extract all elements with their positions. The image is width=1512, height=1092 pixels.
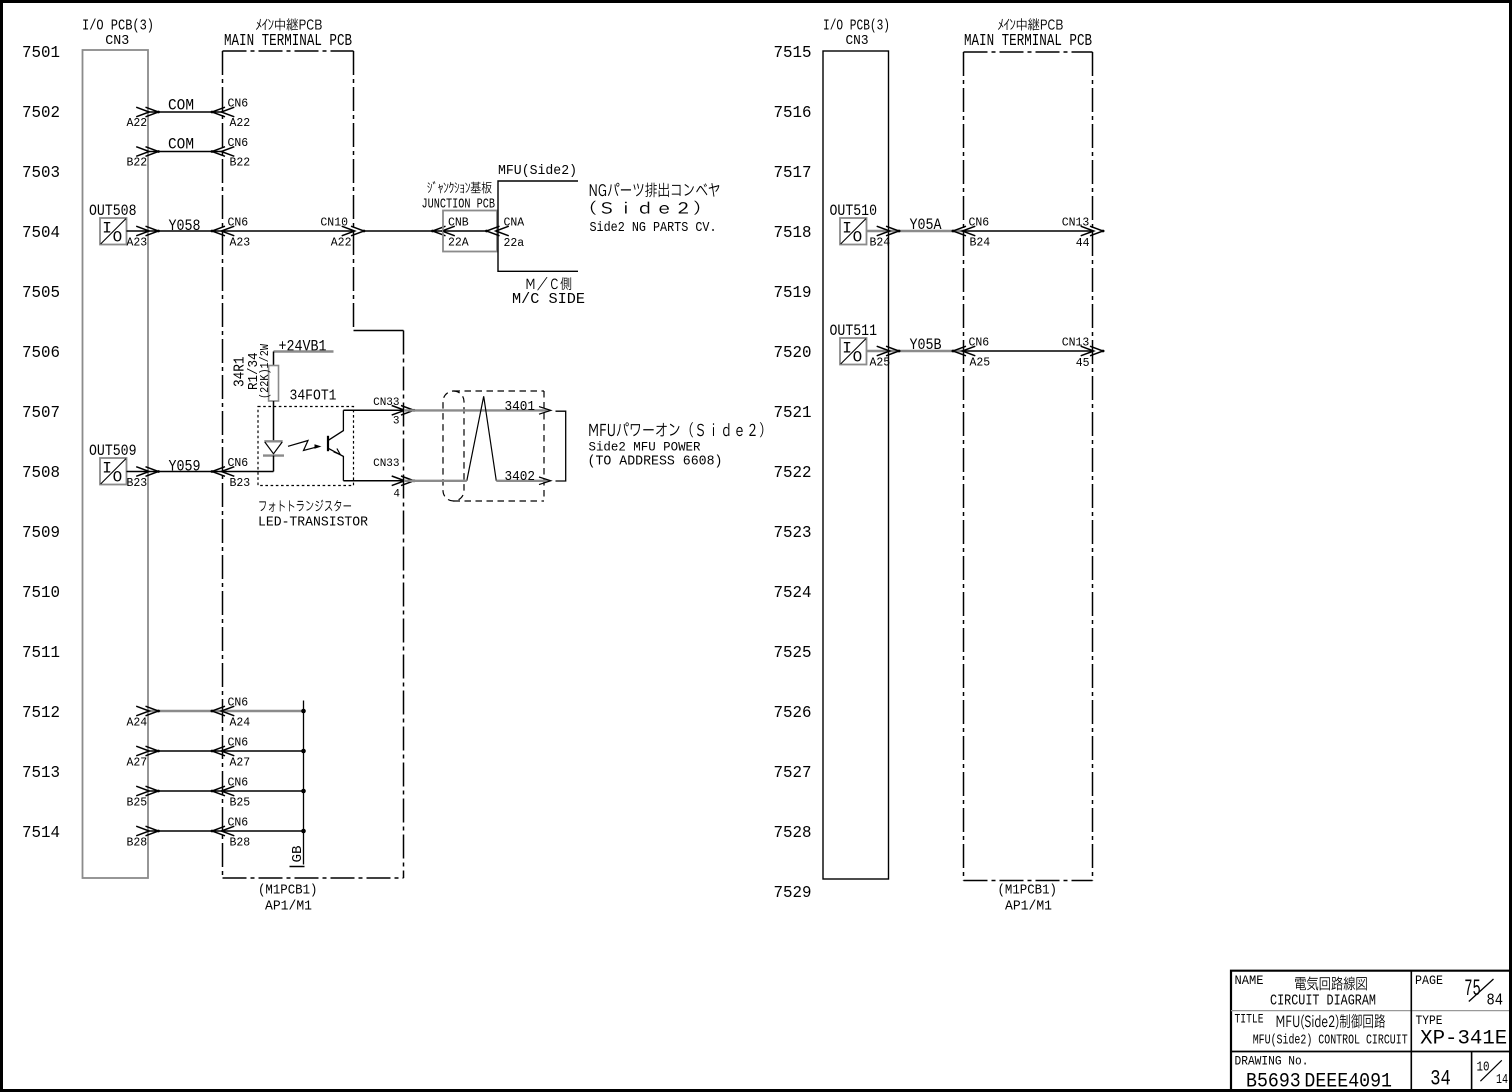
svg-text:7501: 7501 bbox=[22, 44, 60, 63]
svg-text:TYPE: TYPE bbox=[1416, 1013, 1443, 1028]
wire resistor to LED bbox=[273, 401, 275, 441]
wire COM A22 bbox=[148, 111, 223, 113]
svg-text:B28: B28 bbox=[230, 837, 251, 850]
arrow CN6 B25 into MAIN TERMINAL bbox=[221, 786, 234, 796]
arrow A23 out of I/O PCB bbox=[136, 226, 149, 236]
svg-text:Y058: Y058 bbox=[169, 217, 201, 235]
arrow CN6 B24 into MAIN TERMINAL bbox=[962, 226, 975, 236]
svg-text:GB: GB bbox=[291, 846, 306, 863]
svg-text:CIRCUIT DIAGRAM: CIRCUIT DIAGRAM bbox=[1270, 993, 1376, 1010]
svg-text:B25: B25 bbox=[126, 797, 147, 810]
svg-text:Y05A: Y05A bbox=[910, 216, 943, 234]
wire collector to CN33 pin 3 bbox=[343, 409, 403, 411]
svg-text:NAME: NAME bbox=[1235, 973, 1264, 988]
svg-text:CN6: CN6 bbox=[228, 98, 249, 111]
wire 3402 bbox=[404, 480, 467, 482]
svg-text:7503: 7503 bbox=[22, 164, 60, 183]
phototransistor base bar bbox=[327, 436, 329, 451]
svg-text:CN6: CN6 bbox=[228, 737, 249, 750]
svg-text:O: O bbox=[113, 229, 123, 247]
svg-text:A25: A25 bbox=[970, 357, 991, 370]
svg-text:B28: B28 bbox=[126, 837, 147, 850]
svg-text:(22K)1/2W: (22K)1/2W bbox=[258, 343, 272, 399]
arrow CN33 pin 4 bbox=[392, 476, 405, 486]
svg-text:7524: 7524 bbox=[774, 584, 812, 603]
light emission arrow bbox=[288, 441, 318, 451]
circuit diagram kanji title bbox=[1295, 976, 1367, 990]
resistor 34R1 bbox=[269, 366, 279, 402]
wire emitter to CN33 pin 4 bbox=[343, 480, 403, 482]
svg-text:(M1PCB1): (M1PCB1) bbox=[258, 883, 318, 899]
arrow A27 out of I/O PCB bbox=[136, 746, 149, 756]
svg-text:(M1PCB1): (M1PCB1) bbox=[998, 883, 1058, 899]
optocoupler dotted box bbox=[258, 407, 354, 486]
svg-text:Y05B: Y05B bbox=[910, 336, 942, 354]
svg-text:PAGE: PAGE bbox=[1415, 973, 1443, 988]
wire inside junction PCB bbox=[443, 230, 488, 232]
svg-text:XP-341E: XP-341E bbox=[1420, 1028, 1507, 1051]
wire LED cathode down bbox=[273, 456, 275, 472]
twisted pair symbol bbox=[467, 396, 497, 481]
wire Y058 bbox=[127, 230, 223, 232]
svg-text:AP1/M1: AP1/M1 bbox=[265, 899, 312, 915]
svg-text:7516: 7516 bbox=[774, 104, 812, 123]
svg-text:JUNCTION PCB: JUNCTION PCB bbox=[422, 197, 496, 213]
title block page-fraction divider bbox=[1471, 1052, 1473, 1090]
svg-text:CN6: CN6 bbox=[228, 817, 249, 830]
wire Y05A grey bbox=[867, 230, 964, 232]
svg-text:+24VB1: +24VB1 bbox=[279, 338, 327, 356]
left MAIN TERMINAL PCB kanji header bbox=[256, 18, 322, 30]
svg-text:O: O bbox=[113, 469, 123, 487]
svg-text:CN6: CN6 bbox=[228, 697, 249, 710]
arrow CN6 A24 into MAIN TERMINAL bbox=[221, 706, 234, 716]
arrow CN6 B23 into MAIN TERMINAL bbox=[221, 467, 234, 477]
svg-text:A22: A22 bbox=[331, 237, 352, 250]
svg-text:A23: A23 bbox=[126, 237, 147, 250]
svg-text:7528: 7528 bbox=[774, 824, 812, 843]
svg-text:7529: 7529 bbox=[774, 884, 812, 903]
svg-text:MFU(Side2) CONTROL CIRCUIT: MFU(Side2) CONTROL CIRCUIT bbox=[1253, 1033, 1408, 1049]
svg-text:B24: B24 bbox=[970, 237, 991, 250]
arrow A25 out of I/O PCB bbox=[877, 346, 890, 356]
I/O symbol box OUT508 bbox=[100, 218, 127, 245]
right I/O PCB(3) box bbox=[823, 51, 889, 879]
arrow B25 out of I/O PCB bbox=[136, 786, 149, 796]
arrow A22 out of I/O PCB bbox=[136, 107, 149, 117]
svg-text:COM: COM bbox=[168, 97, 194, 115]
GB bus end tick bbox=[290, 866, 305, 868]
LED triangle bbox=[265, 442, 282, 454]
cable bundle oval bbox=[443, 391, 464, 501]
junction PCB kanji label bbox=[427, 181, 491, 193]
svg-text:O: O bbox=[853, 229, 863, 247]
NG parts conveyor (Side2) note bbox=[591, 201, 700, 215]
wire to CN13 bbox=[964, 350, 1093, 352]
junction PCB box bbox=[443, 211, 497, 252]
svg-text:CN13: CN13 bbox=[1062, 337, 1090, 350]
svg-text:CN33: CN33 bbox=[373, 458, 399, 470]
svg-text:84: 84 bbox=[1487, 992, 1504, 1011]
svg-text:LED-TRANSISTOR: LED-TRANSISTOR bbox=[258, 515, 369, 531]
arrowhead 3401 bbox=[539, 407, 551, 415]
NG parts conveyor kanji note bbox=[590, 183, 720, 198]
svg-text:TITLE: TITLE bbox=[1235, 1012, 1264, 1027]
svg-text:DRAWING No.: DRAWING No. bbox=[1235, 1054, 1309, 1069]
LED anode bar bbox=[264, 440, 282, 442]
svg-text:3402: 3402 bbox=[505, 469, 536, 485]
svg-text:7521: 7521 bbox=[774, 404, 812, 423]
LED cathode bar bbox=[263, 454, 284, 456]
svg-text:7512: 7512 bbox=[22, 704, 60, 723]
svg-text:(TO ADDRESS 6608): (TO ADDRESS 6608) bbox=[588, 455, 723, 470]
wire A27 to GB bus bbox=[148, 750, 304, 752]
I/O symbol box OUT511 bbox=[840, 338, 867, 365]
svg-text:B23: B23 bbox=[126, 477, 147, 490]
svg-text:CN10: CN10 bbox=[320, 217, 348, 230]
arrow CN10 A22 out of MAIN TERMINAL bbox=[342, 226, 355, 236]
svg-text:Side2 NG PARTS CV.: Side2 NG PARTS CV. bbox=[590, 221, 717, 236]
sheet slash bbox=[1480, 1060, 1501, 1081]
svg-text:34FOT1: 34FOT1 bbox=[290, 389, 337, 405]
svg-text:A24: A24 bbox=[230, 717, 251, 730]
MFU control circuit kanji title bbox=[1277, 1014, 1386, 1029]
svg-text:44: 44 bbox=[1076, 237, 1090, 250]
cable dashed box bbox=[454, 390, 545, 392]
wire COM B22 bbox=[148, 151, 223, 153]
left MAIN TERMINAL PCB chain outline bbox=[223, 50, 354, 52]
page slash bbox=[1469, 979, 1494, 1002]
svg-text:7523: 7523 bbox=[774, 524, 812, 543]
svg-text:7520: 7520 bbox=[774, 344, 812, 363]
svg-text:7514: 7514 bbox=[22, 824, 60, 843]
svg-text:B5693 DEEE4091: B5693 DEEE4091 bbox=[1246, 1071, 1392, 1092]
arrow CN6 A23 into MAIN TERMINAL bbox=[221, 226, 234, 236]
I/O symbol box OUT509 bbox=[100, 458, 127, 485]
svg-text:CN6: CN6 bbox=[969, 217, 990, 230]
arrow CN6 B22 into MAIN TERMINAL bbox=[221, 147, 234, 157]
svg-text:22A: 22A bbox=[448, 237, 469, 250]
title block divider 2 bbox=[1231, 1051, 1509, 1053]
svg-text:7504: 7504 bbox=[22, 224, 60, 243]
svg-text:CN3: CN3 bbox=[105, 34, 129, 49]
svg-text:A22: A22 bbox=[230, 117, 251, 130]
svg-text:22a: 22a bbox=[504, 237, 525, 250]
svg-text:CN6: CN6 bbox=[228, 217, 249, 230]
svg-text:O: O bbox=[853, 349, 863, 367]
svg-text:7517: 7517 bbox=[774, 164, 812, 183]
title block divider 1 bbox=[1231, 1010, 1509, 1012]
arrow CNB 22A into junction PCB bbox=[442, 226, 455, 236]
MFU(Side2) box bbox=[498, 181, 578, 271]
svg-text:I: I bbox=[102, 460, 112, 478]
svg-text:A22: A22 bbox=[126, 117, 147, 130]
svg-text:CN33: CN33 bbox=[373, 397, 399, 409]
svg-text:I: I bbox=[102, 220, 112, 238]
junction dot A24 bbox=[301, 709, 306, 714]
wire CN6 A23 to CN10 A22 bbox=[223, 230, 354, 232]
svg-text:7506: 7506 bbox=[22, 344, 60, 363]
wire Y05B grey bbox=[867, 350, 964, 352]
arrow A24 out of I/O PCB bbox=[136, 706, 149, 716]
wire 3401 bbox=[404, 409, 549, 411]
wire B28 to GB bus bbox=[148, 830, 304, 832]
svg-text:I/O PCB(3): I/O PCB(3) bbox=[823, 19, 890, 35]
svg-text:7508: 7508 bbox=[22, 464, 60, 483]
arrow CN6 A22 into MAIN TERMINAL bbox=[221, 107, 234, 117]
wire +24VB1 to resistor bbox=[273, 352, 275, 366]
phototransistor emitter bbox=[329, 448, 344, 480]
svg-text:B23: B23 bbox=[230, 477, 251, 490]
right MAIN TERMINAL PCB kanji header bbox=[998, 18, 1063, 30]
svg-text:7522: 7522 bbox=[774, 464, 812, 483]
svg-text:7509: 7509 bbox=[22, 524, 60, 543]
arrowhead 3402 bbox=[539, 477, 551, 485]
svg-text:7510: 7510 bbox=[22, 584, 60, 603]
arrow CN33 pin 3 bbox=[392, 406, 405, 416]
svg-text:14: 14 bbox=[1496, 1072, 1508, 1088]
svg-text:I/O PCB(3): I/O PCB(3) bbox=[82, 19, 154, 35]
arrow CN13 44 out of MAIN TERMINAL bbox=[1081, 226, 1094, 236]
svg-text:B22: B22 bbox=[230, 157, 251, 170]
svg-text:CN6: CN6 bbox=[228, 137, 249, 150]
svg-text:I: I bbox=[842, 340, 852, 358]
svg-text:34: 34 bbox=[1430, 1066, 1451, 1091]
svg-text:Side2 MFU POWER: Side2 MFU POWER bbox=[589, 440, 701, 455]
svg-text:4: 4 bbox=[393, 489, 400, 501]
svg-text:CN3: CN3 bbox=[846, 34, 869, 49]
MFU power-on kanji note bbox=[589, 422, 763, 437]
+24VB1 power rail bbox=[274, 350, 334, 352]
svg-text:AP1/M1: AP1/M1 bbox=[1005, 899, 1052, 915]
junction dot B25 bbox=[301, 789, 306, 794]
arrow CN6 B28 into MAIN TERMINAL bbox=[221, 826, 234, 836]
svg-text:MAIN TERMINAL PCB: MAIN TERMINAL PCB bbox=[224, 31, 352, 50]
svg-text:I: I bbox=[842, 220, 852, 238]
svg-text:COM: COM bbox=[168, 136, 194, 154]
svg-text:B22: B22 bbox=[126, 157, 147, 170]
svg-text:B25: B25 bbox=[230, 797, 251, 810]
wire CN10 to junction PCB bbox=[364, 230, 443, 232]
svg-text:3401: 3401 bbox=[505, 399, 536, 415]
svg-text:A24: A24 bbox=[126, 717, 147, 730]
svg-text:CN13: CN13 bbox=[1062, 217, 1090, 230]
svg-text:45: 45 bbox=[1076, 357, 1090, 370]
svg-text:7505: 7505 bbox=[22, 284, 60, 303]
arrow CN6 A25 into MAIN TERMINAL bbox=[962, 346, 975, 356]
arrow CN13 45 out of MAIN TERMINAL bbox=[1081, 346, 1094, 356]
destination bracket bbox=[556, 411, 566, 481]
emitter arrowhead bbox=[334, 449, 341, 455]
right MAIN TERMINAL PCB chain outline bbox=[964, 51, 1093, 53]
phototransistor kanji label bbox=[259, 500, 351, 512]
svg-text:CNB: CNB bbox=[448, 217, 469, 230]
svg-text:7502: 7502 bbox=[22, 104, 60, 123]
svg-text:CNA: CNA bbox=[504, 217, 525, 230]
wire Y059 bbox=[127, 471, 274, 473]
svg-text:10: 10 bbox=[1477, 1060, 1490, 1076]
svg-text:MFU(Side2): MFU(Side2) bbox=[498, 163, 577, 179]
svg-text:7518: 7518 bbox=[774, 224, 812, 243]
svg-text:7525: 7525 bbox=[774, 644, 812, 663]
arrow CN6 A27 into MAIN TERMINAL bbox=[221, 746, 234, 756]
arrow B28 out of I/O PCB bbox=[136, 826, 149, 836]
svg-text:Y059: Y059 bbox=[169, 458, 201, 476]
title block outline bbox=[1231, 971, 1509, 1089]
svg-text:CN6: CN6 bbox=[228, 777, 249, 790]
arrow B24 out of I/O PCB bbox=[877, 226, 890, 236]
arrow B22 out of I/O PCB bbox=[136, 147, 149, 157]
junction dot A27 bbox=[301, 749, 306, 754]
svg-text:CN6: CN6 bbox=[228, 457, 249, 470]
wire A24 to GB bus bbox=[148, 710, 304, 712]
svg-text:MAIN TERMINAL PCB: MAIN TERMINAL PCB bbox=[964, 31, 1092, 50]
svg-text:A25: A25 bbox=[870, 357, 891, 370]
svg-text:7526: 7526 bbox=[774, 704, 812, 723]
M/C side kanji label bbox=[527, 277, 572, 290]
junction dot B28 bbox=[301, 829, 306, 834]
arrow CNA 22a into MFU bbox=[496, 226, 509, 236]
svg-text:7519: 7519 bbox=[774, 284, 812, 303]
I/O symbol box OUT510 bbox=[840, 218, 867, 245]
svg-text:A23: A23 bbox=[230, 237, 251, 250]
title block vertical divider bbox=[1410, 971, 1412, 1089]
svg-text:M/C SIDE: M/C SIDE bbox=[512, 291, 585, 308]
arrow B23 out of I/O PCB bbox=[136, 467, 149, 477]
wire to CN13 bbox=[964, 230, 1093, 232]
svg-text:7527: 7527 bbox=[774, 764, 812, 783]
svg-text:7507: 7507 bbox=[22, 404, 60, 423]
svg-text:A27: A27 bbox=[230, 757, 251, 770]
svg-text:A27: A27 bbox=[126, 757, 147, 770]
wire B25 to GB bus bbox=[148, 790, 304, 792]
svg-text:B24: B24 bbox=[870, 237, 891, 250]
svg-text:7511: 7511 bbox=[22, 644, 60, 663]
svg-text:3: 3 bbox=[393, 416, 400, 428]
left I/O PCB(3) box bbox=[83, 50, 149, 878]
GB bus wire bbox=[303, 701, 305, 865]
svg-text:7513: 7513 bbox=[22, 764, 60, 783]
phototransistor collector bbox=[329, 410, 344, 440]
svg-text:7515: 7515 bbox=[774, 44, 812, 63]
svg-text:CN6: CN6 bbox=[969, 337, 990, 350]
